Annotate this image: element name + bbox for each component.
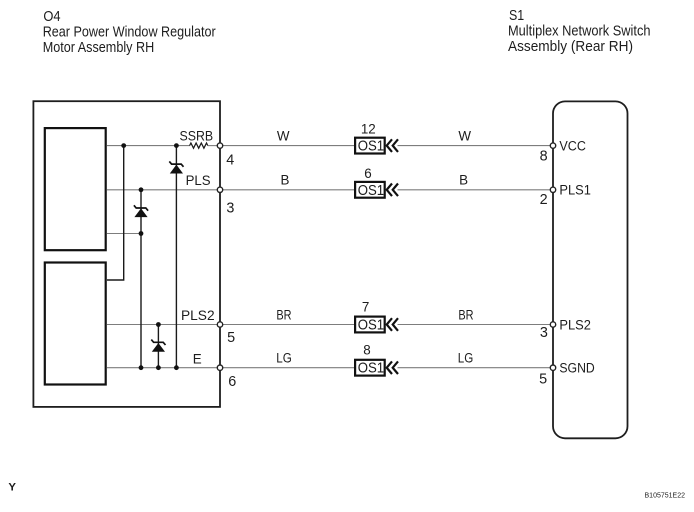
svg-text:BR: BR	[276, 307, 291, 322]
svg-text:VCC: VCC	[559, 138, 586, 153]
svg-text:4: 4	[226, 153, 234, 169]
wire W OS1 to pin 8	[398, 145, 551, 147]
svg-text:LG: LG	[458, 351, 474, 366]
svg-text:8: 8	[363, 343, 370, 358]
svg-text:OS1: OS1	[358, 318, 384, 334]
wire vertical zener branch D3	[157, 325, 159, 368]
wire block2 upper tap to node on wire W	[107, 146, 124, 280]
terminal O4 pin 3	[217, 187, 222, 192]
component title S1 Multiplex Network Switch Assembly (Rear RH)	[508, 8, 651, 55]
junction dot node LG x158.4	[156, 365, 161, 370]
svg-text:PLS: PLS	[186, 173, 211, 188]
connector OS1 pin 8	[355, 343, 398, 377]
motor winding block 2 (lower)	[45, 263, 106, 385]
svg-text:8: 8	[540, 149, 548, 165]
junction dot node LG x176.4	[174, 365, 179, 370]
zener diode D3	[151, 340, 165, 352]
wire B pin3 to OS1	[223, 189, 355, 191]
terminal O4 pin 4	[217, 143, 222, 148]
svg-text:OS1: OS1	[358, 139, 384, 155]
svg-text:PLS1: PLS1	[559, 183, 591, 198]
svg-text:6: 6	[228, 374, 236, 390]
connector OS1 pin 6	[355, 166, 398, 199]
motor assembly O4 outer box	[33, 101, 220, 407]
svg-text:6: 6	[364, 166, 371, 181]
svg-text:SGND: SGND	[559, 361, 595, 376]
svg-text:BR: BR	[458, 307, 473, 322]
terminal S1 pin 5	[550, 365, 555, 370]
wire B block1 to pin 3	[107, 189, 217, 191]
svg-text:E: E	[193, 352, 202, 367]
wire W block1 to resistor	[107, 145, 190, 147]
wire LG block2 to pin 6	[107, 367, 217, 369]
svg-text:B: B	[281, 173, 290, 188]
svg-text:Rear Power Window Regulator: Rear Power Window Regulator	[43, 24, 216, 40]
terminal S1 pin 2	[550, 187, 555, 192]
svg-text:Motor Assembly RH: Motor Assembly RH	[43, 40, 155, 56]
svg-text:PLS2: PLS2	[181, 308, 215, 323]
terminal S1 pin 8	[550, 143, 555, 148]
svg-text:W: W	[458, 128, 471, 143]
svg-text:LG: LG	[276, 351, 292, 366]
svg-text:Y: Y	[8, 481, 16, 493]
motor winding block 1 (upper)	[45, 128, 106, 250]
svg-text:PLS2: PLS2	[559, 317, 591, 332]
svg-text:2: 2	[540, 192, 548, 208]
svg-text:5: 5	[227, 330, 235, 346]
svg-text:SSRB: SSRB	[180, 128, 214, 143]
connector OS1 pin 12	[355, 122, 398, 155]
svg-text:Multiplex Network Switch: Multiplex Network Switch	[508, 23, 651, 39]
terminal S1 pin 3	[550, 322, 555, 327]
component title O4 Rear Power Window Regulator Motor Assembly RH	[43, 9, 216, 56]
terminal O4 pin 6	[217, 365, 222, 370]
wire LG pin6 to OS1	[223, 367, 355, 369]
wire vertical diode branch D2	[140, 190, 142, 368]
svg-text:OS1: OS1	[358, 361, 384, 377]
terminal O4 pin 5	[217, 322, 222, 327]
svg-text:W: W	[277, 128, 290, 143]
wire vertical zener branch D1	[175, 146, 177, 368]
wire W resistor to pin 4	[208, 145, 218, 147]
wire B OS1 to pin 2	[398, 189, 551, 191]
svg-text:S1: S1	[509, 8, 524, 24]
junction dot node LG x141	[139, 365, 144, 370]
wire BR block2 to pin 5	[107, 324, 217, 326]
wire LG OS1 to pin 5	[398, 367, 551, 369]
zener diode D2	[134, 205, 148, 216]
svg-text:5: 5	[539, 371, 547, 387]
svg-text:O4: O4	[43, 9, 60, 25]
zener diode D1	[169, 161, 183, 173]
svg-text:3: 3	[226, 200, 234, 216]
wire BR OS1 to pin 3	[398, 324, 551, 326]
svg-text:B: B	[459, 173, 468, 188]
junction dot node B x141	[139, 187, 144, 192]
svg-text:12: 12	[361, 122, 376, 137]
wire block1 lower tap	[107, 233, 141, 235]
svg-text:B105751E22: B105751E22	[645, 493, 686, 500]
junction dot tap x141	[139, 231, 144, 236]
wire W pin4 to OS1	[223, 145, 355, 147]
svg-text:3: 3	[540, 325, 548, 341]
junction dot node BR x158.4	[156, 322, 161, 327]
multiplex switch S1 body (rounded)	[553, 101, 628, 438]
wire BR pin5 to OS1	[223, 324, 355, 326]
junction dot node W x176.4	[174, 143, 179, 148]
junction dot node W x123.7	[121, 143, 126, 148]
connector OS1 pin 7	[355, 300, 398, 334]
svg-text:Assembly (Rear RH): Assembly (Rear RH)	[508, 39, 633, 55]
svg-text:7: 7	[362, 300, 369, 315]
svg-text:OS1: OS1	[358, 183, 384, 199]
resistor SSRB	[190, 143, 208, 148]
